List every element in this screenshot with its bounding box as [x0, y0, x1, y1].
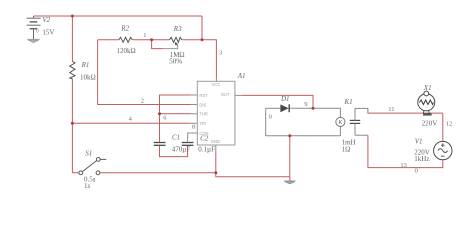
- svg-text:2: 2: [141, 98, 144, 105]
- wire bottom ground rail: [100, 173, 290, 177]
- capacitor C1: [154, 143, 166, 146]
- lamp X1: [418, 94, 435, 111]
- svg-text:120kΩ: 120kΩ: [117, 47, 136, 55]
- resistor R1: [70, 61, 75, 79]
- svg-text:1s: 1s: [84, 182, 91, 190]
- svg-text:1Ω: 1Ω: [342, 146, 351, 154]
- C2 to CON elbow: [188, 133, 191, 143]
- svg-text:C2: C2: [200, 134, 209, 142]
- wire node 1 between R2 and R3: [132, 39, 169, 41]
- svg-text:RST: RST: [199, 93, 208, 98]
- svg-text:1: 1: [143, 32, 146, 39]
- svg-text:°: °: [419, 166, 421, 171]
- wire contact step to lamp net 11: [368, 108, 443, 113]
- junction node 6 THR tap: [158, 112, 161, 115]
- svg-text:V1: V1: [415, 138, 423, 146]
- junction node 3 top: [201, 38, 204, 41]
- svg-text:DIS: DIS: [199, 102, 206, 107]
- wire left column upper: [71, 16, 73, 61]
- svg-text:15V: 15V: [42, 29, 54, 37]
- resistor R2: [119, 37, 133, 42]
- svg-text:9: 9: [304, 101, 307, 108]
- wire IC GND drop: [215, 151, 217, 173]
- svg-text:3: 3: [219, 50, 222, 57]
- relay K1 contact: [350, 120, 360, 123]
- relay loop wiring gray: [266, 108, 341, 136]
- wire top rail: [34, 15, 203, 17]
- wire R2 left column node 2: [98, 40, 191, 105]
- ground near IC: [284, 181, 296, 184]
- svg-text:1kHz: 1kHz: [414, 155, 429, 163]
- wire top right column: [201, 16, 203, 40]
- relay K1 coil: [336, 117, 345, 126]
- svg-text:R2: R2: [120, 25, 129, 33]
- svg-text:OUT: OUT: [221, 92, 230, 97]
- svg-text:8: 8: [192, 124, 195, 131]
- svg-text:13: 13: [400, 162, 407, 169]
- svg-text:R3: R3: [173, 25, 182, 33]
- svg-text:11: 11: [388, 106, 394, 113]
- wire THR tap: [160, 113, 191, 115]
- IC pin stubs: [191, 78, 243, 151]
- svg-text:0: 0: [415, 167, 418, 174]
- wire lamp right column net 12: [442, 113, 444, 141]
- junction node 9: [312, 107, 315, 110]
- svg-text:470µF: 470µF: [172, 145, 191, 153]
- potentiometer R3: [170, 37, 182, 42]
- AC source V1: [434, 141, 452, 159]
- wire relay loop to ground: [289, 136, 291, 181]
- junction top rail / R1 column: [71, 15, 74, 18]
- svg-text:X1: X1: [423, 84, 432, 92]
- wire net 4 to TRI: [72, 122, 190, 124]
- diode D1: [280, 104, 288, 112]
- timer IC A1 box: [197, 81, 235, 145]
- wire left column lower to switch: [72, 79, 78, 173]
- svg-text:TRI: TRI: [199, 121, 206, 126]
- svg-text:0: 0: [36, 29, 39, 34]
- svg-text:S1: S1: [85, 150, 92, 158]
- switch S1: [79, 158, 106, 175]
- svg-text:0.1µF: 0.1µF: [198, 145, 215, 153]
- svg-text:12: 12: [446, 121, 453, 128]
- svg-text:R1: R1: [81, 61, 90, 69]
- ground under battery: [27, 39, 40, 42]
- svg-text:V2: V2: [42, 16, 50, 24]
- capacitor C2: [182, 143, 194, 146]
- svg-text:GND: GND: [211, 139, 220, 144]
- wire R3 right to VCC column node 3: [202, 40, 216, 78]
- battery V2: [27, 16, 41, 39]
- wire R3 wiper loop: [152, 40, 163, 49]
- wire OUT to node 9: [242, 95, 313, 108]
- svg-text:50%: 50%: [169, 57, 182, 65]
- junction node 1: [150, 38, 153, 41]
- junction relay loop to ground: [288, 134, 291, 137]
- wire R2 left lead: [98, 39, 119, 41]
- wire C1 C2 bottom link: [160, 146, 188, 157]
- junction ground rail: [214, 171, 217, 174]
- wire RST column net 6: [160, 95, 191, 142]
- svg-text:6: 6: [163, 115, 167, 122]
- svg-text:C1: C1: [172, 134, 180, 142]
- wire source bottom net 13: [368, 135, 443, 167]
- svg-text:0: 0: [269, 114, 272, 121]
- junction node 4 TRI tap: [71, 122, 74, 125]
- wire R3 right lead: [182, 39, 202, 41]
- svg-text:10kΩ: 10kΩ: [80, 74, 96, 82]
- svg-text:D1: D1: [280, 95, 290, 103]
- svg-text:THR: THR: [199, 112, 207, 117]
- R3 wiper arrow: [177, 44, 178, 46]
- svg-text:K1: K1: [344, 98, 353, 106]
- svg-text:4: 4: [129, 116, 133, 123]
- svg-text:VCC: VCC: [212, 82, 221, 87]
- svg-text:A1: A1: [237, 72, 246, 80]
- svg-text:220V: 220V: [422, 119, 438, 127]
